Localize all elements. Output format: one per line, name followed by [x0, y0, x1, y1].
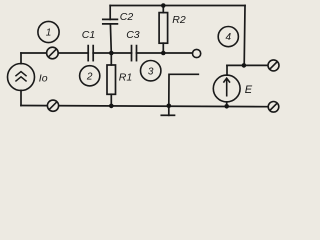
wire Io top lead [20, 53, 22, 64]
capacitor C2 [103, 19, 118, 24]
wire middle center [93, 52, 131, 54]
node 3 [141, 60, 161, 80]
resistor R2 [159, 6, 168, 54]
wire top rail [110, 5, 245, 7]
node 2 [80, 66, 100, 86]
switch contact [193, 49, 201, 57]
svg-text:C3: C3 [126, 29, 140, 41]
svg-text:2: 2 [86, 71, 93, 82]
svg-text:C1: C1 [82, 29, 95, 41]
voltage source E [213, 75, 240, 102]
terminal input top [47, 47, 59, 59]
ground [161, 106, 174, 116]
svg-text:4: 4 [226, 32, 232, 43]
terminal output top [268, 60, 279, 71]
junction ground [167, 104, 172, 109]
junction R1 bottom [109, 104, 114, 109]
wire middle left [21, 52, 88, 54]
junction dots [109, 3, 246, 108]
junction C2/R1 top [109, 51, 114, 56]
junction E bottom [224, 104, 229, 109]
wire C2 branch lower [109, 24, 112, 53]
wire bottom rail [21, 106, 268, 107]
current source Io [8, 64, 35, 91]
capacitor C3 [132, 46, 137, 61]
wire Io bottom lead [20, 90, 22, 105]
node 1 [38, 21, 59, 42]
svg-text:3: 3 [148, 66, 154, 77]
wire E branch vertical [243, 6, 246, 66]
junction R2 top [161, 3, 166, 8]
terminal input bottom [47, 100, 58, 111]
wire middle right [137, 52, 193, 54]
switch lever [169, 74, 199, 105]
resistor R1 [107, 53, 116, 106]
svg-text:R1: R1 [119, 72, 132, 84]
wire E top lead [226, 65, 228, 75]
wire E branch horizontal [227, 64, 268, 66]
svg-text:1: 1 [46, 28, 52, 39]
terminal output bottom [268, 102, 279, 113]
svg-text:E: E [245, 84, 253, 96]
svg-text:C2: C2 [120, 11, 134, 23]
junction E top [242, 63, 247, 68]
wire E bottom lead [226, 102, 228, 106]
capacitor C1 [88, 46, 93, 61]
svg-text:R2: R2 [172, 14, 186, 26]
svg-text:Io: Io [39, 73, 48, 85]
wire C2 branch upper [109, 6, 111, 20]
node 4 [218, 26, 238, 46]
junction R2 bottom [161, 51, 166, 56]
